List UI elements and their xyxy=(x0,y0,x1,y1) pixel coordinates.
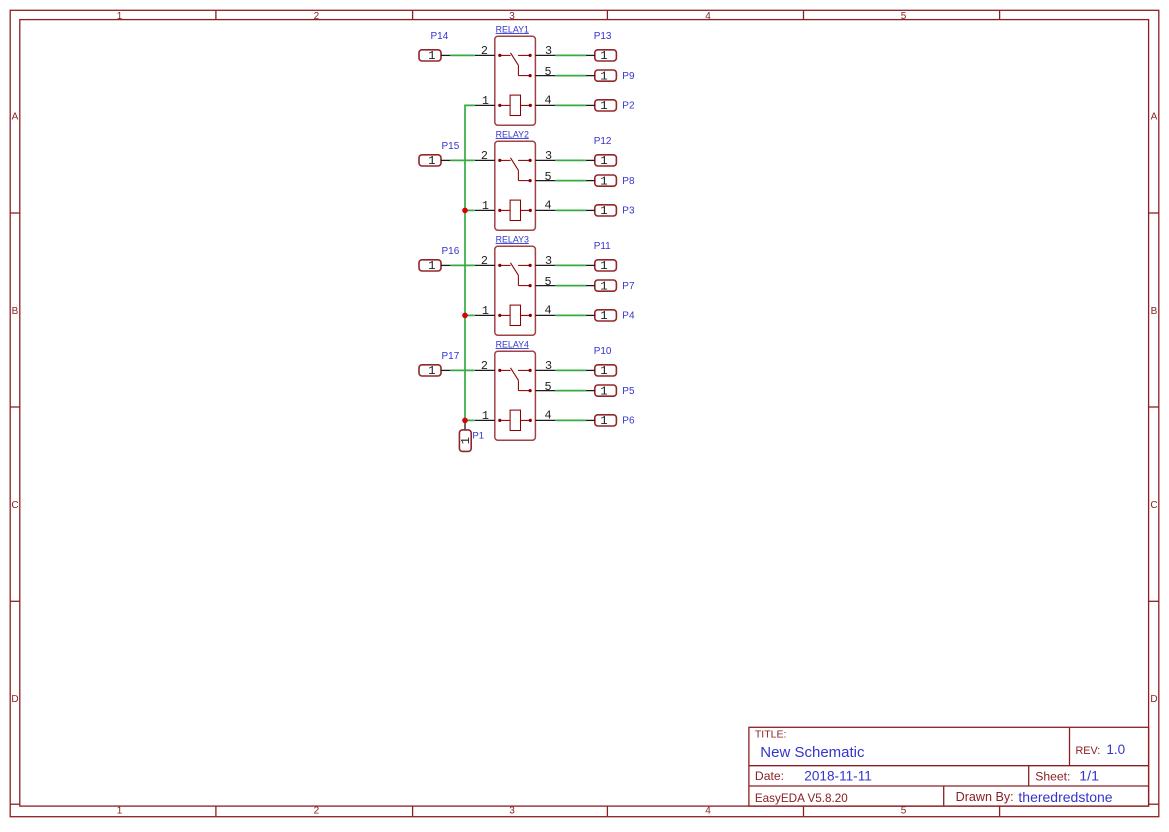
relay RELAY2 name label xyxy=(496,129,529,139)
node label P5 xyxy=(622,386,635,397)
svg-text:P14: P14 xyxy=(431,31,449,42)
svg-text:P9: P9 xyxy=(622,71,635,82)
svg-text:2: 2 xyxy=(314,806,320,817)
wire P14 to RELAY1 pin 2 xyxy=(450,54,474,56)
relay RELAY3 pin 4 xyxy=(535,314,555,316)
svg-text:1.0: 1.0 xyxy=(1106,742,1125,757)
svg-text:1: 1 xyxy=(600,204,607,218)
relay RELAY1 pin 2 xyxy=(475,54,495,56)
relay RELAY3 pin 5 number xyxy=(545,275,552,289)
node label P10 xyxy=(594,346,612,357)
relay RELAY2 pin 4 xyxy=(535,209,555,211)
relay RELAY1 pin 3 xyxy=(535,54,555,56)
wire P16 to RELAY3 pin 2 xyxy=(450,264,474,266)
relay RELAY3 coil xyxy=(498,305,532,325)
wire RELAY1 pin 5 to P9 xyxy=(555,75,585,77)
relay RELAY4 switch lever drop xyxy=(517,380,519,390)
relay RELAY2 pin 3 number xyxy=(545,149,552,163)
svg-text:P3: P3 xyxy=(622,205,635,216)
wire RELAY1 pin 4 to P2 xyxy=(555,104,585,106)
relay RELAY1 NC contact lead xyxy=(518,74,531,77)
relay RELAY1 pin 4 xyxy=(535,104,555,106)
relay RELAY1 switch lever xyxy=(511,53,519,66)
svg-text:1: 1 xyxy=(482,409,489,423)
relay RELAY3 pin 5 xyxy=(535,285,555,287)
relay RELAY2 pin 4 number xyxy=(545,199,552,213)
relay RELAY2 pin 2 xyxy=(475,159,495,161)
relay RELAY4 NC contact lead xyxy=(518,389,531,392)
wire vertical bus RELAY1 pin1 to P1 xyxy=(465,105,475,420)
svg-text:A: A xyxy=(1151,112,1158,123)
svg-text:3: 3 xyxy=(509,11,515,22)
node label P2 xyxy=(622,100,635,111)
svg-text:1: 1 xyxy=(482,304,489,318)
svg-text:5: 5 xyxy=(545,380,552,394)
relay RELAY2 switch lever xyxy=(511,158,519,171)
relay RELAY4 pin 3 number xyxy=(545,359,552,373)
relay RELAY3 name label xyxy=(496,234,529,244)
svg-text:1: 1 xyxy=(428,259,435,273)
node label P7 xyxy=(622,281,635,292)
svg-text:P15: P15 xyxy=(442,141,460,152)
svg-text:TITLE:: TITLE: xyxy=(755,729,787,741)
relay RELAY2 body xyxy=(495,141,536,230)
svg-text:2018-11-11: 2018-11-11 xyxy=(804,768,872,783)
relay RELAY2 NC contact lead xyxy=(518,179,531,182)
connector P15 xyxy=(419,154,450,168)
relay RELAY4 xyxy=(475,339,556,440)
svg-text:RELAY3: RELAY3 xyxy=(496,234,529,244)
relay RELAY2 pin 5 xyxy=(535,180,555,182)
wire P17 to RELAY4 pin 2 xyxy=(450,369,474,371)
relay RELAY3 pin 1 xyxy=(475,314,495,316)
svg-text:1: 1 xyxy=(428,49,435,63)
svg-text:1/1: 1/1 xyxy=(1079,769,1099,785)
node label P12 xyxy=(594,136,612,147)
svg-text:P11: P11 xyxy=(594,241,611,252)
wire RELAY3 pin 3 to P11 xyxy=(555,264,585,266)
relay RELAY2 pin 1 xyxy=(475,209,495,211)
node label P13 xyxy=(594,31,612,42)
relay RELAY3 switch lever xyxy=(511,263,519,276)
svg-text:5: 5 xyxy=(545,170,552,184)
svg-text:D: D xyxy=(11,694,18,705)
connector P4 xyxy=(586,309,617,323)
svg-text:P13: P13 xyxy=(594,31,612,42)
svg-text:A: A xyxy=(12,112,19,123)
relay RELAY1 pin 3 number xyxy=(545,44,552,58)
relay RELAY2 pin 5 number xyxy=(545,170,552,184)
svg-text:P16: P16 xyxy=(442,246,460,257)
svg-text:3: 3 xyxy=(509,806,515,817)
svg-text:1: 1 xyxy=(482,94,489,108)
connector P5 xyxy=(586,384,617,398)
relay RELAY3 NC contact lead xyxy=(518,284,531,287)
svg-text:1: 1 xyxy=(600,364,607,378)
svg-text:3: 3 xyxy=(545,149,552,163)
relay RELAY2 pin 1 number xyxy=(482,199,489,213)
svg-text:2: 2 xyxy=(314,11,320,22)
relay RELAY1 NO contact lead xyxy=(518,54,532,57)
connector P6 xyxy=(586,414,617,428)
relay RELAY1 coil xyxy=(498,95,532,115)
node label P3 xyxy=(622,205,635,216)
node label P1 xyxy=(472,431,484,442)
svg-text:5: 5 xyxy=(901,806,907,817)
relay RELAY4 switch common contact dot xyxy=(498,369,501,372)
relay RELAY2 switch lever drop xyxy=(517,170,519,180)
connector P2 xyxy=(586,99,617,113)
relay RELAY1 pin 4 number xyxy=(545,94,552,108)
svg-text:REV:: REV: xyxy=(1076,745,1101,757)
svg-text:P1: P1 xyxy=(472,431,484,442)
relay RELAY4 pin 2 xyxy=(475,369,495,371)
connector P7 xyxy=(586,279,617,293)
wire RELAY3 pin 5 to P7 xyxy=(555,285,585,287)
svg-text:New Schematic: New Schematic xyxy=(760,744,865,761)
connector P13 xyxy=(586,49,617,63)
svg-text:P5: P5 xyxy=(622,386,635,397)
wire P15 to RELAY2 pin 2 xyxy=(450,159,474,161)
svg-text:1: 1 xyxy=(428,364,435,378)
relay RELAY3 body xyxy=(495,246,536,335)
svg-text:P7: P7 xyxy=(622,281,635,292)
wire RELAY4 pin 4 to P6 xyxy=(555,419,585,421)
wire bus stub to RELAY3 pin 1 xyxy=(465,314,475,316)
svg-text:RELAY4: RELAY4 xyxy=(496,339,529,349)
svg-text:4: 4 xyxy=(545,409,552,423)
node label P11 xyxy=(594,241,611,252)
relay RELAY1 switch common contact dot xyxy=(498,54,501,57)
relay RELAY1 switch lever drop xyxy=(517,65,519,75)
node label P17 xyxy=(442,351,460,362)
svg-text:1: 1 xyxy=(600,279,607,293)
junction at bus and RELAY4 pin 1 xyxy=(462,418,468,424)
relay RELAY4 coil xyxy=(498,410,532,430)
svg-text:1: 1 xyxy=(117,806,123,817)
connector P1 xyxy=(459,422,473,452)
relay RELAY3 xyxy=(475,234,556,335)
relay RELAY3 pin 4 number xyxy=(545,304,552,318)
relay RELAY3 pin 3 number xyxy=(545,254,552,268)
wire RELAY4 pin 5 to P5 xyxy=(555,390,585,392)
svg-text:P8: P8 xyxy=(622,176,635,187)
connector P9 xyxy=(586,69,617,83)
svg-text:4: 4 xyxy=(545,94,552,108)
connector P10 xyxy=(586,364,617,378)
svg-text:4: 4 xyxy=(545,199,552,213)
svg-text:RELAY1: RELAY1 xyxy=(496,24,529,34)
svg-text:3: 3 xyxy=(545,44,552,58)
wire bus stub to RELAY4 pin 1 xyxy=(465,419,475,421)
relay RELAY3 pin 3 xyxy=(535,264,555,266)
svg-text:1: 1 xyxy=(428,154,435,168)
relay RELAY1 switch common lead xyxy=(500,54,511,56)
relay RELAY3 pin 2 xyxy=(475,264,495,266)
relay RELAY4 pin 1 number xyxy=(482,409,489,423)
relay RELAY3 pin 1 number xyxy=(482,304,489,318)
wire bus stub to RELAY2 pin 1 xyxy=(465,209,475,211)
svg-text:1: 1 xyxy=(600,99,607,113)
relay RELAY4 NO contact lead xyxy=(518,369,532,372)
svg-text:2: 2 xyxy=(481,254,488,268)
svg-text:P2: P2 xyxy=(622,100,635,111)
relay RELAY2 pin 2 number xyxy=(481,149,488,163)
connector P16 xyxy=(419,259,450,273)
svg-text:2: 2 xyxy=(481,44,488,58)
svg-text:1: 1 xyxy=(600,69,607,83)
connector P12 xyxy=(586,154,617,168)
svg-text:1: 1 xyxy=(482,199,489,213)
relay RELAY4 pin 4 number xyxy=(545,409,552,423)
relay RELAY3 switch lever drop xyxy=(517,275,519,285)
connector P8 xyxy=(586,174,617,188)
relay RELAY1 pin 1 xyxy=(475,104,495,106)
svg-text:EasyEDA V5.8.20: EasyEDA V5.8.20 xyxy=(755,792,848,805)
relay RELAY1 name label xyxy=(496,24,529,34)
svg-text:4: 4 xyxy=(705,11,711,22)
svg-text:2: 2 xyxy=(481,359,488,373)
svg-text:4: 4 xyxy=(545,304,552,318)
node label P4 xyxy=(622,310,635,321)
svg-text:C: C xyxy=(1150,500,1157,511)
svg-text:1: 1 xyxy=(600,174,607,188)
relay RELAY3 pin 2 number xyxy=(481,254,488,268)
svg-text:1: 1 xyxy=(117,11,123,22)
svg-text:RELAY2: RELAY2 xyxy=(496,129,529,139)
relay RELAY1 pin 1 number xyxy=(482,94,489,108)
connector P17 xyxy=(419,364,450,378)
junction at bus and RELAY3 pin 1 xyxy=(462,313,468,319)
svg-text:D: D xyxy=(1150,694,1157,705)
relay RELAY2 NO contact lead xyxy=(518,159,532,162)
wire RELAY1 pin 3 to P13 xyxy=(555,54,585,56)
svg-text:1: 1 xyxy=(600,49,607,63)
svg-text:3: 3 xyxy=(545,254,552,268)
svg-text:P10: P10 xyxy=(594,346,612,357)
svg-text:1: 1 xyxy=(600,414,607,428)
relay RELAY2 coil xyxy=(498,200,532,220)
svg-text:1: 1 xyxy=(459,437,473,444)
relay RELAY4 pin 4 xyxy=(535,419,555,421)
wire RELAY2 pin 4 to P3 xyxy=(555,209,585,211)
relay RELAY3 switch common lead xyxy=(500,264,511,266)
relay RELAY3 switch common contact dot xyxy=(498,264,501,267)
relay RELAY1 pin 5 number xyxy=(545,65,552,79)
svg-text:C: C xyxy=(11,500,18,511)
svg-text:theredredstone: theredredstone xyxy=(1018,789,1112,805)
node label P9 xyxy=(622,71,635,82)
svg-text:B: B xyxy=(1151,306,1158,317)
node label P6 xyxy=(622,415,635,426)
relay RELAY2 switch common lead xyxy=(500,159,511,161)
svg-text:1: 1 xyxy=(600,384,607,398)
wire RELAY4 pin 3 to P10 xyxy=(555,369,585,371)
svg-text:Sheet:: Sheet: xyxy=(1035,770,1070,784)
wire RELAY2 pin 5 to P8 xyxy=(555,180,585,182)
relay RELAY4 switch common lead xyxy=(500,369,511,371)
relay RELAY4 pin 2 number xyxy=(481,359,488,373)
svg-text:P4: P4 xyxy=(622,310,635,321)
svg-text:P17: P17 xyxy=(442,351,460,362)
relay RELAY4 pin 5 number xyxy=(545,380,552,394)
relay RELAY1 pin 2 number xyxy=(481,44,488,58)
connector P3 xyxy=(586,204,617,218)
relay RELAY3 NO contact lead xyxy=(518,264,532,267)
connector P14 xyxy=(419,49,450,63)
svg-text:Drawn By:: Drawn By: xyxy=(956,790,1014,804)
svg-text:P6: P6 xyxy=(622,415,635,426)
relay RELAY4 body xyxy=(495,351,536,440)
junction at bus and RELAY2 pin 1 xyxy=(462,208,468,214)
relay RELAY1 xyxy=(475,24,556,125)
svg-text:3: 3 xyxy=(545,359,552,373)
node label P16 xyxy=(442,246,460,257)
svg-text:5: 5 xyxy=(545,65,552,79)
svg-text:5: 5 xyxy=(545,275,552,289)
svg-text:4: 4 xyxy=(705,806,711,817)
relay RELAY4 switch lever xyxy=(511,368,519,381)
svg-text:2: 2 xyxy=(481,149,488,163)
svg-text:B: B xyxy=(12,306,19,317)
relay RELAY4 pin 1 xyxy=(475,419,495,421)
node label P15 xyxy=(442,141,460,152)
relay RELAY4 pin 3 xyxy=(535,369,555,371)
relay RELAY2 switch common contact dot xyxy=(498,159,501,162)
connector P11 xyxy=(586,259,617,273)
svg-text:1: 1 xyxy=(600,309,607,323)
wire RELAY3 pin 4 to P4 xyxy=(555,314,585,316)
relay RELAY4 pin 5 xyxy=(535,390,555,392)
relay RELAY2 pin 3 xyxy=(535,159,555,161)
relay RELAY1 pin 5 xyxy=(535,75,555,77)
node label P14 xyxy=(431,31,449,42)
node label P8 xyxy=(622,176,635,187)
relay RELAY4 name label xyxy=(496,339,529,349)
wire RELAY2 pin 3 to P12 xyxy=(555,159,585,161)
svg-text:P12: P12 xyxy=(594,136,612,147)
svg-text:5: 5 xyxy=(901,11,907,22)
svg-text:1: 1 xyxy=(600,154,607,168)
relay RELAY1 body xyxy=(495,36,536,125)
svg-text:Date:: Date: xyxy=(755,769,784,783)
svg-text:1: 1 xyxy=(600,259,607,273)
relay RELAY2 xyxy=(475,129,556,230)
